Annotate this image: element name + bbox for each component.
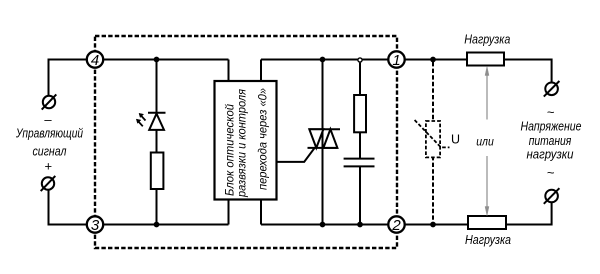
svg-text:Напряжение: Напряжение xyxy=(521,119,582,134)
svg-text:перехода через «0»: перехода через «0» xyxy=(256,88,270,190)
svg-text:–: – xyxy=(44,112,52,127)
svg-text:нагрузки: нагрузки xyxy=(527,147,574,162)
svg-text:Управляющий: Управляющий xyxy=(15,126,83,141)
svg-text:+: + xyxy=(45,159,53,174)
svg-text:Нагрузка: Нагрузка xyxy=(464,32,510,47)
svg-text:~: ~ xyxy=(547,165,555,180)
svg-text:~: ~ xyxy=(547,104,555,119)
svg-text:сигнал: сигнал xyxy=(33,144,68,159)
svg-text:3: 3 xyxy=(91,217,100,234)
svg-text:4: 4 xyxy=(91,52,99,69)
svg-text:развязки и контроля: развязки и контроля xyxy=(235,88,249,197)
svg-text:или: или xyxy=(476,135,494,149)
svg-text:1: 1 xyxy=(392,52,400,69)
svg-text:2: 2 xyxy=(391,217,401,234)
svg-text:Нагрузка: Нагрузка xyxy=(465,232,511,247)
svg-text:U: U xyxy=(451,133,460,147)
